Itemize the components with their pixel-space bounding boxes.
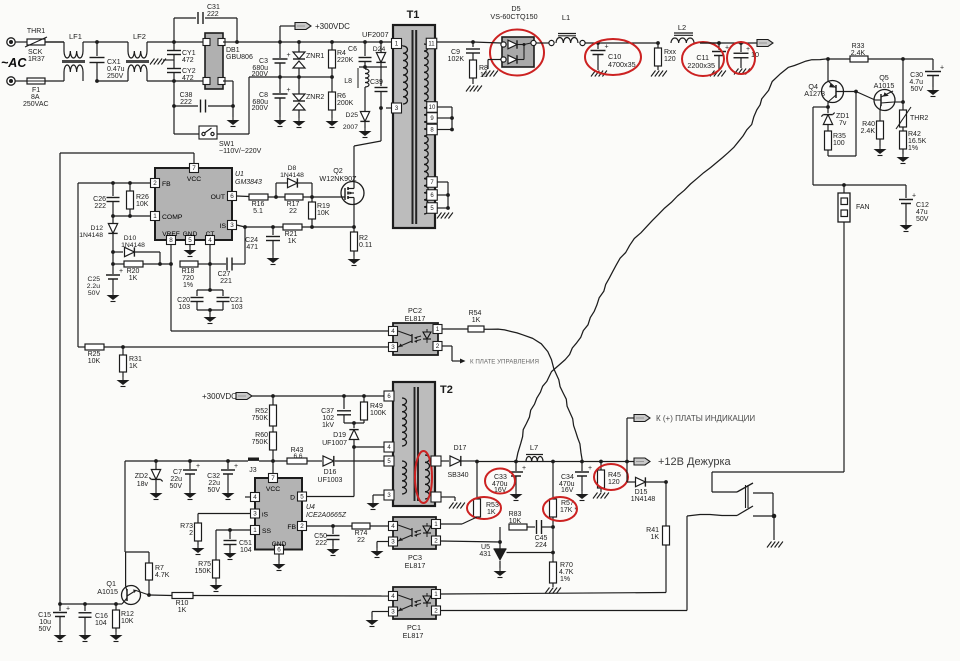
feedback divider line [499, 527, 501, 542]
svg-text:2200x35: 2200x35 [687, 61, 715, 70]
node CY column bottom [172, 79, 176, 83]
svg-text:2.4K: 2.4K [851, 50, 866, 57]
T1 pin 6 [427, 190, 438, 201]
svg-text:THR2: THR2 [910, 115, 928, 122]
capacitor C37 102 1kV [343, 396, 345, 409]
svg-text:R6: R6 [337, 93, 346, 100]
node R57 bottom [551, 525, 555, 529]
resistor R53 1K drop [476, 462, 478, 500]
svg-text:SW1: SW1 [219, 141, 234, 148]
chassis ground below cap 10 [734, 69, 739, 75]
svg-text:10u: 10u [39, 619, 51, 626]
svg-text:+: + [66, 606, 70, 613]
svg-text:100K: 100K [370, 410, 387, 417]
svg-text:C25: C25 [88, 276, 101, 283]
svg-text:LF1: LF1 [69, 32, 82, 41]
T2 pin 6 [384, 391, 394, 401]
T2 right pin upper [431, 456, 441, 466]
capacitor C10 4700x35 [597, 43, 599, 49]
svg-text:C34: C34 [561, 474, 574, 481]
ground below C32 [227, 490, 229, 493]
resistor R74 22 [352, 523, 370, 529]
svg-text:2: 2 [189, 530, 193, 537]
varistor ZNR2 [298, 77, 300, 94]
resistor R41 1K [665, 482, 667, 526]
ground below U5 [499, 568, 501, 571]
chassis ground below D5 [482, 71, 487, 77]
svg-text:D: D [290, 495, 295, 502]
T2 pin 4 [384, 442, 394, 452]
ground below D25 [364, 128, 366, 131]
svg-text:1R37: 1R37 [28, 56, 45, 63]
svg-text:3: 3 [391, 344, 395, 351]
svg-text:4.7K: 4.7K [155, 572, 170, 579]
T1 core lines [412, 30, 414, 224]
svg-text:L7: L7 [530, 443, 538, 452]
svg-text:C50: C50 [314, 533, 327, 540]
svg-text:R35: R35 [833, 133, 846, 140]
svg-text:+: + [522, 465, 526, 472]
capacitor C31 over bridge [173, 18, 175, 42]
svg-text:R26: R26 [136, 194, 149, 201]
resistor R16 5.1 [249, 194, 268, 200]
Q2 source wire [353, 204, 355, 227]
svg-text:R21: R21 [285, 231, 298, 238]
svg-text:222: 222 [315, 540, 327, 547]
svg-text:250V: 250V [107, 73, 124, 80]
tie wire pins 10-9-8 [451, 107, 453, 130]
ground below C16 [84, 632, 86, 635]
svg-text:GND: GND [272, 541, 287, 548]
svg-text:R52: R52 [255, 408, 268, 415]
svg-text:VCC: VCC [266, 486, 280, 493]
T2 right lower pin wire to chassis ground [441, 496, 455, 498]
resistor R2 0.11 [353, 227, 355, 232]
capacitor C8 680u 200V [279, 77, 281, 93]
T1 pin 5 [427, 203, 438, 214]
ground below C25 [112, 292, 114, 295]
svg-text:SCK: SCK [28, 49, 43, 56]
AC input terminal bottom [7, 77, 15, 85]
svg-text:L8: L8 [344, 78, 352, 85]
D5 lower input wire and ground [488, 59, 501, 61]
+300VDC flag top [279, 26, 281, 42]
ground below C24 [272, 255, 274, 258]
svg-text:+: + [746, 46, 750, 53]
svg-text:CT: CT [206, 231, 215, 238]
svg-text:OUT: OUT [211, 194, 225, 201]
diode D25 2007 [364, 87, 366, 111]
svg-text:R4: R4 [337, 50, 346, 57]
svg-text:GND: GND [183, 231, 198, 238]
svg-text:471: 471 [246, 244, 258, 251]
svg-text:+: + [287, 87, 291, 94]
capacitor C6 [364, 42, 366, 56]
svg-text:A1015: A1015 [874, 81, 895, 90]
svg-text:~AC: ~AC [1, 56, 27, 70]
wire CX1 to LF2 [97, 41, 128, 43]
svg-text:A1015: A1015 [97, 587, 118, 596]
snubber bottom line [344, 422, 364, 424]
svg-text:1N4148: 1N4148 [280, 172, 304, 179]
svg-text:R49: R49 [370, 403, 383, 410]
ground below U4 pin6 [278, 554, 280, 561]
node R52 top [271, 394, 275, 398]
wire D5 output to L1 [536, 42, 549, 44]
svg-text:U1: U1 [235, 171, 244, 178]
U4 VCC riser to 18V rail [272, 461, 274, 474]
svg-text:EL817: EL817 [405, 314, 426, 323]
diode D15 1N4148 [626, 462, 628, 483]
node output cap 10 [739, 41, 743, 45]
svg-text:+: + [605, 44, 609, 51]
svg-text:R33: R33 [852, 43, 865, 50]
svg-text:L1: L1 [562, 13, 570, 22]
diode D16 UF1003 [323, 456, 334, 466]
svg-text:22: 22 [289, 208, 297, 215]
resistor R73 2 [195, 523, 202, 541]
svg-text:THR1: THR1 [27, 28, 45, 35]
svg-text:VCC: VCC [187, 176, 201, 183]
svg-text:221: 221 [220, 278, 232, 285]
svg-text:L2: L2 [678, 23, 686, 32]
power switch upper pole [712, 491, 737, 493]
svg-text:iS: iS [262, 512, 269, 519]
svg-text:D12: D12 [91, 225, 104, 232]
node D19 to T2 pin4 [352, 445, 356, 449]
Q1 emitter wire [127, 590, 136, 594]
svg-text:6.6: 6.6 [293, 453, 302, 460]
svg-text:7: 7 [192, 165, 196, 172]
capacitor C38 [173, 81, 175, 106]
capacitor C12 47u 50V [905, 185, 907, 198]
T2 pin3 wire to ground [373, 494, 384, 496]
resistor R25 10K [85, 344, 104, 350]
svg-text:+12В Дежурка: +12В Дежурка [658, 456, 732, 468]
resistor R83 10K [509, 524, 527, 530]
node R31 [121, 345, 125, 349]
svg-text:1%: 1% [560, 576, 570, 583]
controller U4 ICE2A0665Z [255, 478, 302, 550]
svg-text:4: 4 [208, 237, 212, 244]
capacitor 10 at output [700, 42, 757, 44]
svg-text:C16: C16 [95, 613, 108, 620]
ground below C34 [581, 491, 583, 494]
svg-text:104: 104 [95, 620, 107, 627]
capacitor C27 221 [211, 263, 226, 265]
svg-text:R45: R45 [608, 472, 621, 479]
voltage selector switch SW1 [173, 106, 175, 134]
svg-text:50V: 50V [170, 483, 183, 490]
node R4 top [330, 40, 334, 44]
CT line from pin4 [209, 245, 211, 291]
jumper J3 [248, 458, 259, 461]
svg-text:1: 1 [395, 41, 399, 48]
svg-text:224: 224 [535, 542, 547, 549]
resistor R40 2.4K [877, 121, 884, 139]
svg-text:4.7u: 4.7u [909, 79, 923, 86]
resistor R43 6.6 [287, 458, 307, 464]
svg-text:UF1007: UF1007 [322, 440, 347, 447]
resistor R70 4.7K 1% [552, 553, 554, 563]
svg-text:1K: 1K [129, 275, 138, 282]
FAN return wire down to switch [843, 222, 845, 472]
svg-text:CX1: CX1 [107, 59, 121, 66]
wire DB1 - output down [223, 80, 233, 82]
svg-text:D15: D15 [635, 489, 648, 496]
T1 pin 11 [426, 38, 437, 49]
transformer T1 [393, 25, 435, 228]
svg-text:R2: R2 [359, 235, 368, 242]
svg-text:C31: C31 [207, 4, 220, 11]
svg-text:10K: 10K [121, 618, 134, 625]
svg-text:2: 2 [153, 180, 157, 187]
resistor R45 120 [600, 462, 602, 471]
diode D10 1N4148 line [111, 250, 115, 254]
resistor R52 750K [272, 396, 274, 405]
svg-text:222: 222 [180, 99, 192, 106]
svg-text:C3: C3 [259, 58, 268, 65]
C15 node rail [60, 603, 116, 605]
R75 drop wire [215, 530, 217, 560]
svg-text:22: 22 [357, 537, 365, 544]
svg-text:C21: C21 [230, 297, 243, 304]
wire LF1 to CX1 node top [83, 41, 97, 43]
resistor Rxx 120 [657, 43, 659, 48]
resistor R54 1K [468, 326, 484, 332]
svg-text:C39: C39 [370, 79, 383, 86]
svg-text:4: 4 [391, 523, 395, 530]
svg-text:CY1: CY1 [182, 50, 196, 57]
svg-text:C51: C51 [239, 540, 252, 547]
svg-text:C9: C9 [451, 49, 460, 56]
svg-text:R53: R53 [486, 502, 499, 509]
capacitor C34 470u 16V [581, 462, 583, 472]
svg-text:1K: 1K [650, 534, 659, 541]
chassis ground below C10 [591, 71, 596, 77]
svg-text:4700x35: 4700x35 [608, 60, 636, 69]
svg-text:+300VDC: +300VDC [315, 22, 350, 31]
svg-text:7: 7 [271, 475, 275, 482]
wire DB1 + output to rail [223, 41, 237, 43]
loop wire R35 to Q4/Q5 base node [827, 150, 829, 156]
svg-text:C20: C20 [177, 297, 190, 304]
capacitor C45 224 [536, 520, 538, 534]
svg-text:50V: 50V [39, 626, 52, 633]
capacitor C26 222 [112, 183, 114, 196]
T2 core lines [414, 387, 416, 501]
svg-text:8A: 8A [31, 94, 40, 101]
FB vertical feedback line x78 [77, 183, 79, 347]
transformer T2 [393, 382, 435, 506]
capacitor C39 [380, 67, 382, 86]
diode D8 1N4148 bypass [275, 183, 277, 197]
red highlight circle around cap 10 [727, 42, 755, 74]
svg-text:F1: F1 [32, 87, 40, 94]
chassis ground below R45 [593, 493, 598, 499]
chassis ground below C11 [710, 71, 715, 77]
bridge rectifier DB1 GBU806 [205, 33, 223, 89]
svg-text:DB1: DB1 [226, 47, 240, 54]
svg-text:3: 3 [391, 609, 395, 616]
resistor R6 200K [331, 77, 333, 92]
VREF line from pin8 [170, 245, 172, 332]
node C33 [514, 460, 518, 464]
svg-text:222: 222 [94, 203, 106, 210]
svg-text:D25: D25 [346, 112, 359, 119]
svg-text:R17: R17 [287, 201, 300, 208]
svg-text:100: 100 [833, 140, 845, 147]
chassis ground below Rxx [657, 66, 659, 70]
node CX1 top [95, 40, 99, 44]
svg-text:1K: 1K [487, 509, 496, 516]
svg-text:1: 1 [434, 591, 438, 598]
chassis ground left of CY capacitors [163, 59, 174, 61]
capacitor C24 471 [272, 227, 274, 235]
COMP line [113, 215, 150, 217]
svg-text:220K: 220K [337, 57, 354, 64]
PWM controller U1 GM3843 [155, 168, 232, 240]
svg-text:16V: 16V [561, 487, 574, 494]
svg-text:D24: D24 [373, 46, 386, 53]
red ellipse around R53 [467, 497, 501, 519]
resistor R42 16.5K 1% [902, 127, 904, 131]
node Q4 collector / ZD1 [826, 105, 830, 109]
svg-text:47u: 47u [916, 209, 928, 216]
svg-text:SS: SS [262, 528, 272, 535]
capacitor C33 470u 16V [515, 462, 517, 472]
svg-text:ICE2A0665Z: ICE2A0665Z [306, 512, 347, 519]
capacitor C32 22u 50V [226, 459, 230, 463]
chassis ground below T1 aux pins [437, 213, 442, 219]
node C34 [551, 460, 555, 464]
svg-text:4: 4 [391, 593, 395, 600]
wire indication flag to rail [627, 417, 634, 419]
node D17 output [475, 460, 479, 464]
node U5 ref [552, 527, 554, 553]
svg-text:18v: 18v [137, 481, 149, 488]
svg-text:472: 472 [182, 75, 194, 82]
ground below C15 [59, 632, 61, 635]
svg-text:50V: 50V [916, 216, 929, 223]
ground below C30 [932, 87, 934, 90]
svg-text:R25: R25 [88, 351, 101, 358]
wire C6/D24 junction [359, 66, 387, 68]
svg-text:UF2007: UF2007 [362, 30, 389, 39]
PC2 pin1 wire to R54 [442, 328, 468, 330]
svg-text:R10: R10 [176, 600, 189, 607]
svg-text:R19: R19 [317, 203, 330, 210]
capacitor C50 222 [332, 526, 334, 534]
ground below C51 [229, 550, 231, 553]
svg-text:+: + [119, 268, 123, 275]
U5 ref wire [507, 552, 554, 554]
svg-text:D19: D19 [333, 432, 346, 439]
node R33 left [826, 57, 830, 61]
T1 pin 8 [427, 124, 438, 135]
power switch lower pole [737, 506, 753, 516]
snubber C9 102K [471, 40, 475, 44]
T2 pin 3 [384, 490, 394, 500]
svg-text:8: 8 [169, 237, 173, 244]
red highlight circle around C10 [585, 39, 641, 75]
node CX1 bottom [95, 79, 99, 83]
svg-text:1: 1 [436, 326, 440, 333]
svg-text:102K: 102K [448, 56, 465, 63]
svg-text:22u: 22u [208, 480, 220, 487]
node C10 [596, 41, 600, 45]
ground below R75 [215, 582, 217, 585]
svg-text:2.4K: 2.4K [861, 128, 876, 135]
resistor R35 100 [825, 131, 832, 150]
U1 pin7 VCC stub [193, 153, 195, 163]
svg-text:R75: R75 [198, 561, 211, 568]
svg-text:+: + [940, 65, 944, 72]
main output flag [757, 40, 773, 47]
svg-text:+300VDC: +300VDC [202, 392, 237, 401]
thermistor THR1 [27, 39, 45, 45]
svg-text:1N4148: 1N4148 [631, 496, 656, 503]
node +300VDC stub [278, 40, 282, 44]
svg-text:4: 4 [253, 494, 257, 501]
svg-text:750K: 750K [252, 415, 269, 422]
wire F1 to LF1 [45, 80, 64, 82]
red ellipse around R57 [543, 497, 577, 521]
node Rxx [656, 41, 660, 45]
T2 secondary winding [425, 455, 430, 499]
FAN feed line [813, 184, 906, 186]
fuse F1 [15, 80, 28, 82]
red highlight circle around D5 [490, 30, 544, 76]
svg-text:750K: 750K [252, 439, 269, 446]
ground below R12 [115, 632, 117, 635]
ground below C38 node [232, 106, 234, 117]
svg-text:1%: 1% [183, 282, 193, 289]
ground below switch [773, 516, 775, 540]
svg-text:SB340: SB340 [447, 472, 468, 479]
capacitor C30 4.7u 50V [932, 59, 934, 70]
red ellipse around R45 [594, 464, 628, 490]
Q5 emitter to R40 [880, 104, 881, 110]
svg-text:6: 6 [230, 193, 234, 200]
FB line [78, 182, 150, 184]
svg-text:1%: 1% [908, 145, 918, 152]
svg-text:C8: C8 [259, 92, 268, 99]
svg-text:2.2u: 2.2u [87, 283, 100, 290]
node C11 [717, 41, 721, 45]
svg-text:+: + [196, 463, 200, 470]
svg-text:5: 5 [188, 237, 192, 244]
svg-text:200V: 200V [252, 105, 269, 112]
wire L1 to C10 node [585, 42, 658, 44]
ground below C33 [515, 491, 517, 494]
diode D24 [380, 42, 382, 52]
svg-text:U4: U4 [306, 504, 315, 511]
svg-text:102: 102 [322, 415, 334, 422]
varistor ZNR1 [298, 42, 300, 52]
svg-text:ZNR2: ZNR2 [306, 94, 324, 101]
svg-text:10K: 10K [509, 518, 522, 525]
capacitor C25 2.2u 50V [112, 252, 114, 274]
Q1 collector wire [125, 552, 127, 586]
wire SW1 to C3/C8 midpoint [248, 77, 250, 134]
capacitor CY2 [167, 68, 181, 70]
resistor R17 22 [285, 194, 303, 200]
wire LF2 to bridge [147, 41, 205, 43]
svg-text:4.7K: 4.7K [559, 569, 574, 576]
svg-text:T2: T2 [440, 384, 453, 396]
svg-text:431: 431 [479, 551, 491, 558]
